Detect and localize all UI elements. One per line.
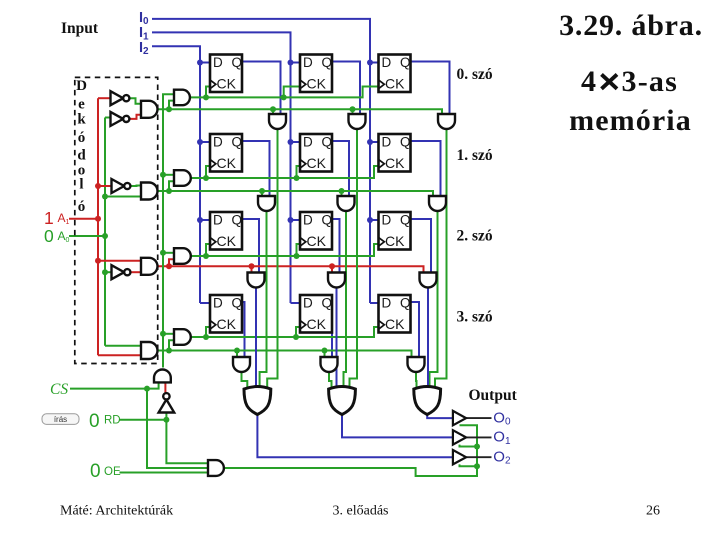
svg-text:e: e [78, 97, 85, 113]
svg-text:Q: Q [400, 135, 411, 150]
svg-text:ó: ó [78, 130, 86, 146]
svg-text:CS: CS [50, 381, 68, 398]
svg-text:0: 0 [90, 461, 101, 482]
svg-text:Q: Q [322, 55, 333, 70]
svg-text:CK: CK [217, 233, 237, 249]
svg-text:D: D [382, 213, 392, 228]
svg-text:D: D [303, 135, 313, 150]
svg-text:D: D [382, 55, 392, 70]
svg-text:4: 4 [581, 65, 596, 98]
svg-text:D: D [382, 135, 392, 150]
svg-text:Input: Input [61, 20, 99, 37]
svg-text:D: D [213, 135, 223, 150]
svg-text:D: D [382, 296, 392, 311]
svg-text:Q: Q [322, 135, 333, 150]
svg-text:CK: CK [385, 316, 405, 332]
svg-text:Q: Q [232, 213, 243, 228]
svg-text:Q: Q [400, 55, 411, 70]
svg-text:Output: Output [469, 387, 518, 404]
svg-text:CK: CK [217, 316, 237, 332]
svg-text:CK: CK [217, 155, 237, 171]
svg-text:ó: ó [78, 199, 86, 215]
svg-text:D: D [303, 213, 313, 228]
svg-text:D: D [213, 213, 223, 228]
svg-text:d: d [77, 148, 86, 164]
svg-text:3. szó: 3. szó [457, 309, 493, 326]
svg-text:írás: írás [54, 415, 67, 424]
svg-text:0. szó: 0. szó [457, 66, 493, 83]
svg-text:OE: OE [104, 466, 121, 478]
svg-text:Q: Q [322, 296, 333, 311]
svg-text:Q: Q [232, 296, 243, 311]
svg-text:CK: CK [307, 75, 327, 91]
svg-text:Q: Q [400, 213, 411, 228]
svg-text:D: D [213, 55, 223, 70]
svg-text:D: D [303, 55, 313, 70]
svg-text:D: D [303, 296, 313, 311]
svg-text:Q: Q [232, 135, 243, 150]
svg-text:3. előadás: 3. előadás [333, 504, 389, 519]
svg-text:CK: CK [385, 155, 405, 171]
svg-text:2. szó: 2. szó [457, 228, 493, 245]
svg-text:Q: Q [322, 213, 333, 228]
svg-text:RD: RD [104, 415, 121, 427]
svg-text:1: 1 [44, 208, 54, 228]
svg-text:CK: CK [307, 233, 327, 249]
svg-text:Q: Q [232, 55, 243, 70]
svg-text:D: D [76, 78, 87, 94]
svg-text:memória: memória [569, 104, 692, 137]
svg-text:3-as: 3-as [622, 65, 678, 98]
svg-text:CK: CK [385, 233, 405, 249]
svg-text:0: 0 [44, 226, 54, 246]
svg-text:CK: CK [217, 75, 237, 91]
svg-text:CK: CK [307, 316, 327, 332]
svg-text:D: D [213, 296, 223, 311]
svg-text:k: k [77, 112, 86, 128]
svg-text:l: l [79, 177, 83, 193]
svg-text:26: 26 [646, 504, 660, 519]
svg-text:3.29. ábra.: 3.29. ábra. [559, 9, 703, 42]
svg-text:Q: Q [400, 296, 411, 311]
svg-text:1. szó: 1. szó [457, 147, 493, 164]
svg-text:CK: CK [385, 75, 405, 91]
svg-text:CK: CK [307, 155, 327, 171]
svg-text:0: 0 [89, 411, 100, 432]
svg-text:Máté: Architektúrák: Máté: Architektúrák [60, 504, 173, 519]
